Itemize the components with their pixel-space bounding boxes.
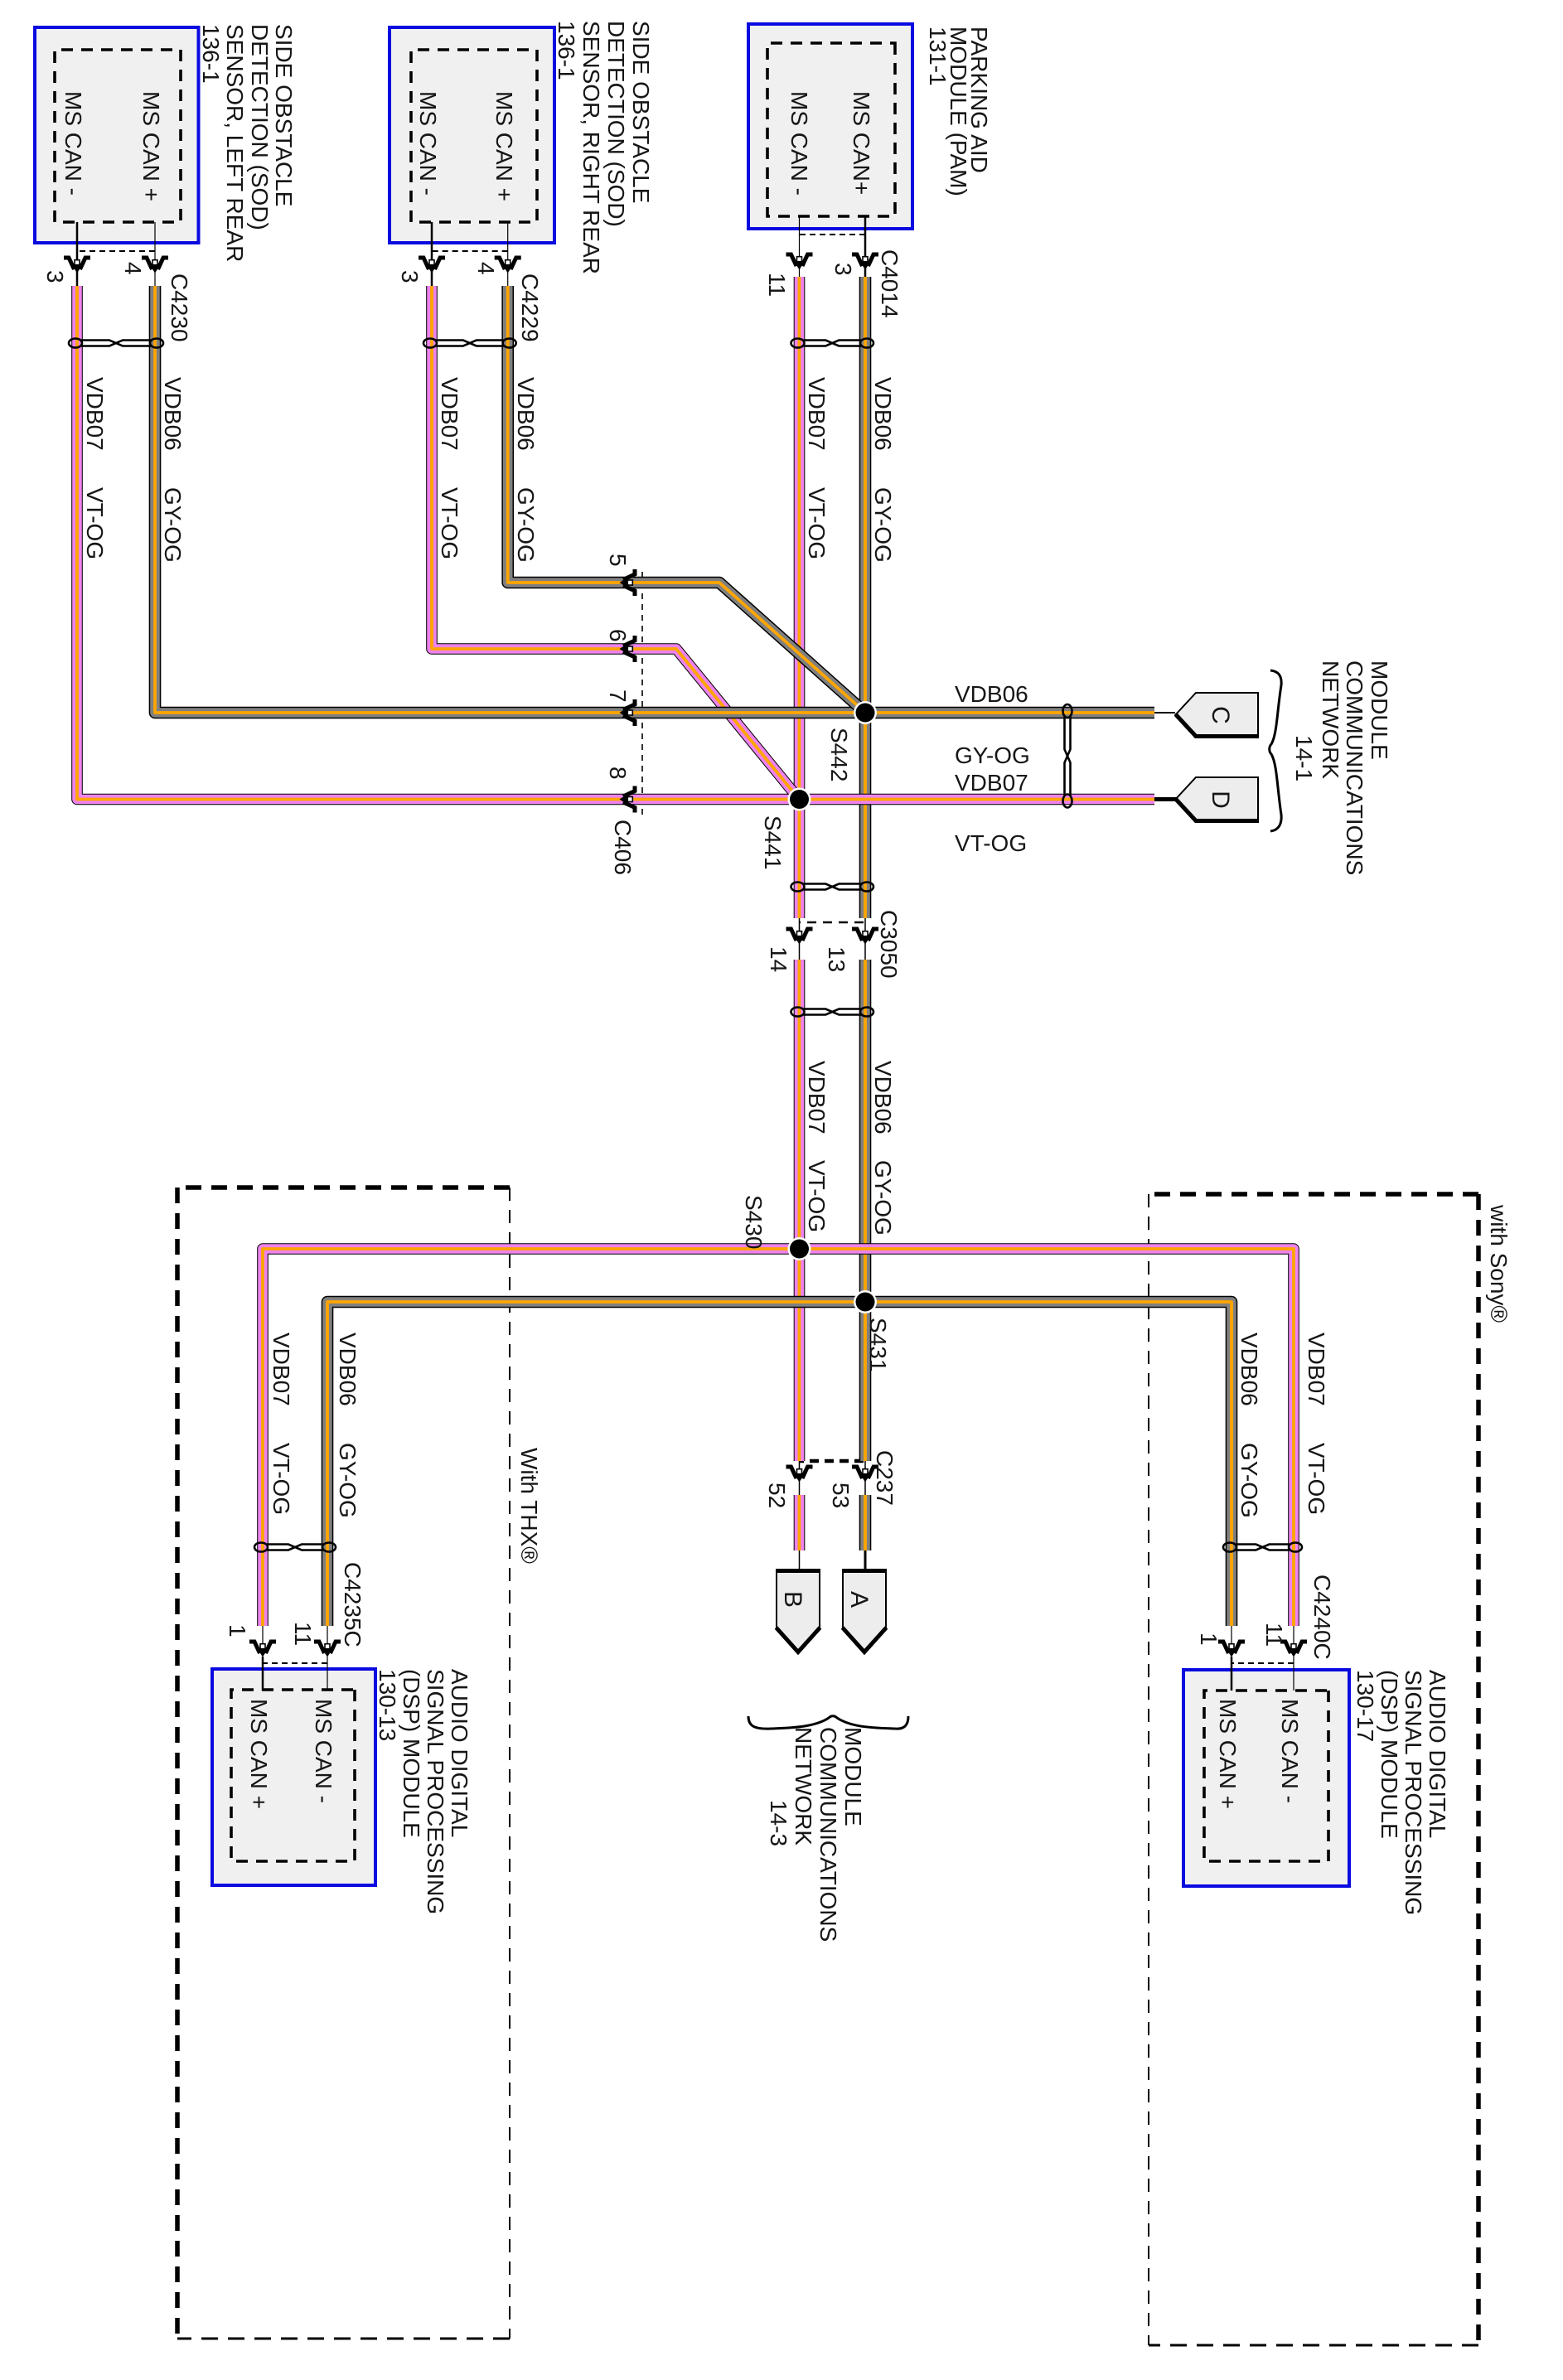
connector arrow SOD right pin 3	[419, 258, 445, 273]
svg-text:VT-OG: VT-OG	[82, 487, 108, 559]
splice S441	[788, 788, 811, 811]
wire link at C3050 pin 14	[799, 918, 801, 960]
splice S430	[788, 1237, 811, 1260]
svg-text:NETWORK: NETWORK	[791, 1727, 816, 1845]
svg-text:D: D	[1207, 791, 1234, 809]
svg-text:1: 1	[1196, 1633, 1222, 1646]
module SOD left box	[35, 27, 199, 243]
wire VDB07 VT-OG trunk segment C237 to flag B	[794, 1495, 806, 1550]
svg-text:SENSOR, RIGHT REAR: SENSOR, RIGHT REAR	[578, 21, 604, 274]
svg-text:4: 4	[473, 262, 499, 275]
svg-text:MS CAN -: MS CAN -	[60, 91, 86, 196]
svg-text:COMMUNICATIONS: COMMUNICATIONS	[1342, 660, 1367, 875]
svg-text:11: 11	[290, 1622, 316, 1646]
svg-text:VDB07: VDB07	[82, 377, 108, 451]
connector arrow C406 pin 8	[620, 786, 636, 813]
svg-text:4: 4	[120, 262, 146, 275]
svg-text:VDB06: VDB06	[870, 1061, 896, 1134]
svg-text:DETECTION (SOD): DETECTION (SOD)	[247, 24, 273, 230]
svg-text:(DSP) MODULE: (DSP) MODULE	[1377, 1670, 1402, 1839]
SOD right pin 4 lead	[507, 222, 509, 286]
wire lead to flag B	[799, 1550, 801, 1570]
svg-text:14: 14	[766, 946, 791, 972]
svg-text:VDB07: VDB07	[804, 377, 830, 451]
wire VDB07 VT-OG branch SOD right pin 3 to S441	[432, 286, 798, 798]
wire VDB07 VT-OG branch S430 to DSP modules	[263, 1249, 1294, 1626]
svg-text:11: 11	[764, 273, 790, 297]
connector arrow C237 pin 53	[852, 1467, 878, 1483]
twisted pair symbol at PAM	[791, 339, 874, 348]
svg-text:C3050: C3050	[876, 910, 902, 979]
wire VDB06 GY-OG trunk segment PAM to C3050	[859, 277, 872, 918]
svg-text:S441: S441	[760, 815, 786, 869]
svg-text:GY-OG: GY-OG	[513, 487, 539, 563]
svg-text:MODULE: MODULE	[840, 1727, 866, 1826]
flag A	[843, 1570, 886, 1652]
svg-text:C4240C: C4240C	[1309, 1575, 1335, 1660]
wire link at C237 pin 53	[864, 1461, 866, 1495]
THX DSP pin 11 lead inside box	[327, 1657, 328, 1691]
wire VDB06 GY-OG branch SOD right pin 4 to S442	[508, 286, 864, 711]
svg-text:C406: C406	[610, 820, 636, 875]
connector arrow C4240C pin 11	[1280, 1642, 1307, 1657]
PAM pin 11 lead	[799, 216, 801, 277]
svg-text:MS CAN +: MS CAN +	[491, 91, 517, 201]
svg-text:VDB07: VDB07	[955, 770, 1028, 796]
twisted pair symbol at THX DSP	[254, 1543, 336, 1552]
brace for module communications network 14-1	[1270, 670, 1281, 831]
svg-text:VDB07: VDB07	[1304, 1333, 1329, 1406]
svg-text:C4014: C4014	[877, 249, 902, 318]
svg-text:3: 3	[397, 270, 423, 283]
wire link at C237 pin 52	[799, 1461, 801, 1495]
connector arrow PAM pin 11	[786, 254, 813, 270]
connector arrow C4235C pin 1	[249, 1642, 276, 1657]
svg-text:VDB07: VDB07	[804, 1061, 830, 1134]
svg-text:SENSOR, LEFT REAR: SENSOR, LEFT REAR	[222, 24, 248, 262]
svg-text:VDB06: VDB06	[335, 1333, 361, 1406]
svg-text:130-13: 130-13	[375, 1669, 400, 1741]
svg-text:NETWORK: NETWORK	[1318, 660, 1343, 779]
connector arrow C406 pin 6	[620, 636, 636, 662]
svg-text:GY-OG: GY-OG	[955, 743, 1030, 768]
svg-text:SIGNAL PROCESSING: SIGNAL PROCESSING	[1401, 1670, 1426, 1915]
Sony DSP pin 11 lead inside box	[1293, 1657, 1294, 1691]
wire VDB07 VT-OG branch flag D through S441 and C406 to SOD left pin 3	[77, 286, 1154, 800]
svg-text:5: 5	[605, 554, 631, 567]
connector arrow C4235C pin 11	[314, 1642, 341, 1657]
twisted pair symbol trunk before C3050	[791, 883, 874, 892]
svg-text:C: C	[1207, 706, 1234, 724]
module PAM box	[748, 24, 912, 229]
svg-text:C4230: C4230	[167, 273, 192, 342]
THX DSP pin 1 lead	[262, 1626, 264, 1643]
svg-text:with Sony®: with Sony®	[1486, 1204, 1512, 1323]
svg-text:VT-OG: VT-OG	[269, 1443, 294, 1515]
svg-text:C4229: C4229	[517, 273, 543, 342]
svg-text:COMMUNICATIONS: COMMUNICATIONS	[815, 1727, 841, 1942]
wire VDB06 GY-OG trunk segment C3050 to C237	[859, 960, 872, 1461]
svg-text:B: B	[779, 1591, 806, 1608]
Sony DSP pin 11 lead	[1293, 1626, 1294, 1643]
connector C4230 pin bracket	[77, 250, 155, 252]
svg-text:MS CAN -: MS CAN -	[415, 91, 441, 196]
svg-text:VT-OG: VT-OG	[804, 487, 830, 559]
svg-text:AUDIO DIGITAL: AUDIO DIGITAL	[447, 1669, 472, 1837]
connector arrow C3050 pin 14	[786, 929, 813, 945]
connector C4229 pin bracket	[432, 250, 508, 252]
connector arrow PAM pin 3	[852, 254, 878, 270]
THX DSP pin 1 lead inside box	[262, 1657, 264, 1691]
module THX DSP box	[212, 1669, 375, 1885]
twisted pair symbol trunk after C3050	[791, 1008, 874, 1017]
svg-text:VDB06: VDB06	[870, 377, 896, 451]
svg-text:SIGNAL PROCESSING: SIGNAL PROCESSING	[423, 1669, 448, 1914]
svg-text:52: 52	[764, 1483, 790, 1508]
svg-text:VT-OG: VT-OG	[1304, 1443, 1329, 1515]
svg-text:53: 53	[828, 1483, 854, 1508]
wire VDB07 VT-OG trunk segment C3050 to C237	[794, 960, 806, 1461]
svg-text:VDB07: VDB07	[269, 1333, 294, 1406]
wire lead to flag D	[1154, 797, 1180, 801]
svg-text:VT-OG: VT-OG	[804, 1160, 830, 1232]
svg-text:C4235C: C4235C	[340, 1562, 365, 1647]
Sony DSP pin 1 lead	[1231, 1626, 1232, 1643]
svg-text:136-1: 136-1	[198, 24, 224, 84]
svg-text:SIDE OBSTACLE: SIDE OBSTACLE	[271, 24, 297, 206]
wire lead to flag A	[864, 1550, 867, 1570]
connector C4235C pin bracket	[263, 1662, 327, 1664]
Sony DSP pin 1 lead inside box	[1231, 1657, 1233, 1691]
svg-text:13: 13	[824, 946, 849, 972]
SOD left pin 4 lead	[154, 222, 156, 286]
svg-text:MS CAN +: MS CAN +	[246, 1699, 272, 1809]
connector arrow SOD left pin 4	[142, 258, 168, 273]
connector C406 dashed line	[641, 572, 643, 816]
splice S431	[854, 1290, 877, 1313]
flag D	[1175, 777, 1258, 822]
svg-text:MS CAN+: MS CAN+	[849, 91, 874, 195]
svg-text:S442: S442	[826, 728, 852, 781]
svg-text:C237: C237	[872, 1450, 898, 1506]
svg-text:14-1: 14-1	[1291, 735, 1317, 781]
connector C3050 dashed line	[799, 922, 864, 923]
connector arrow SOD left pin 3	[64, 258, 90, 273]
connector C237 dashed line	[799, 1459, 864, 1463]
svg-text:VDB06: VDB06	[160, 377, 186, 451]
svg-text:MS CAN +: MS CAN +	[1215, 1699, 1241, 1809]
svg-text:AUDIO DIGITAL: AUDIO DIGITAL	[1425, 1670, 1450, 1838]
svg-text:VDB07: VDB07	[437, 377, 462, 451]
svg-text:With THX®: With THX®	[516, 1448, 542, 1564]
svg-text:14-3: 14-3	[766, 1800, 791, 1846]
twisted pair symbol at SOD right	[423, 339, 516, 348]
wire VDB06 GY-OG branch flag C through S442 and C406 to SOD left pin 4	[155, 286, 1154, 713]
svg-text:3: 3	[42, 270, 68, 283]
svg-text:131-1: 131-1	[925, 27, 951, 86]
svg-text:MODULE: MODULE	[1367, 660, 1392, 760]
svg-text:GY-OG: GY-OG	[335, 1443, 361, 1518]
svg-text:S431: S431	[865, 1318, 891, 1371]
connector arrow C4240C pin 1	[1218, 1642, 1245, 1657]
connector arrow C406 pin 7	[620, 699, 636, 726]
svg-text:S430: S430	[741, 1195, 767, 1249]
svg-text:GY-OG: GY-OG	[870, 1160, 896, 1236]
twisted pair symbol at SOD left	[69, 339, 163, 348]
brace for module communications network 14-3	[748, 1716, 908, 1729]
svg-text:A: A	[845, 1591, 873, 1608]
svg-text:1: 1	[225, 1624, 250, 1637]
wire VDB06 GY-OG trunk segment C237 to flag A	[859, 1495, 872, 1550]
module SOD right box	[390, 27, 554, 243]
svg-text:GY-OG: GY-OG	[160, 487, 186, 563]
wire lead to flag C	[1154, 712, 1175, 714]
connector arrow C3050 pin 13	[852, 929, 878, 945]
twisted pair symbol at flags C and D	[1063, 704, 1072, 808]
svg-text:VDB06: VDB06	[1236, 1333, 1262, 1406]
svg-text:VT-OG: VT-OG	[437, 487, 462, 559]
SOD left pin 3 lead	[76, 222, 79, 286]
flag C	[1175, 693, 1258, 738]
svg-text:3: 3	[830, 263, 856, 276]
svg-text:(DSP) MODULE: (DSP) MODULE	[399, 1669, 424, 1838]
svg-text:VDB06: VDB06	[955, 681, 1028, 707]
connector C4240C pin bracket	[1232, 1662, 1294, 1664]
svg-text:6: 6	[605, 629, 631, 642]
svg-text:8: 8	[605, 767, 631, 780]
svg-text:MS CAN -: MS CAN -	[786, 91, 812, 196]
option box With THX (dashed)	[177, 1188, 510, 2339]
svg-text:VT-OG: VT-OG	[955, 830, 1027, 856]
svg-text:11: 11	[1261, 1623, 1287, 1647]
svg-text:MS CAN +: MS CAN +	[138, 91, 164, 201]
connector arrow C406 pin 5	[620, 569, 636, 596]
wire VDB06 GY-OG branch S431 to DSP modules	[327, 1302, 1232, 1626]
svg-text:MS CAN -: MS CAN -	[1277, 1699, 1303, 1803]
option box with Sony (dashed)	[1149, 1194, 1478, 2345]
svg-text:MS CAN -: MS CAN -	[311, 1699, 336, 1803]
svg-text:GY-OG: GY-OG	[870, 487, 896, 563]
splice S442	[854, 701, 877, 724]
svg-text:SIDE OBSTACLE: SIDE OBSTACLE	[628, 21, 654, 203]
svg-text:DETECTION (SOD): DETECTION (SOD)	[603, 21, 629, 227]
connector arrow SOD right pin 4	[495, 258, 521, 273]
svg-text:GY-OG: GY-OG	[1236, 1443, 1262, 1518]
wire VDB07 VT-OG trunk segment PAM to C3050	[794, 277, 806, 918]
twisted pair symbol at Sony DSP	[1223, 1543, 1302, 1552]
SOD right pin 3 lead	[431, 222, 433, 286]
svg-text:130-17: 130-17	[1353, 1670, 1378, 1742]
flag B	[777, 1570, 820, 1652]
THX DSP pin 11 lead	[327, 1626, 328, 1643]
PAM pin 3 lead	[864, 216, 867, 277]
wire link at C3050 pin 13	[864, 918, 866, 960]
svg-text:136-1: 136-1	[554, 21, 579, 80]
module Sony DSP box	[1183, 1670, 1349, 1886]
connector C4014 pin bracket	[800, 234, 866, 235]
svg-text:VDB06: VDB06	[513, 377, 539, 451]
svg-text:7: 7	[605, 689, 631, 703]
connector arrow C237 pin 52	[786, 1467, 813, 1483]
